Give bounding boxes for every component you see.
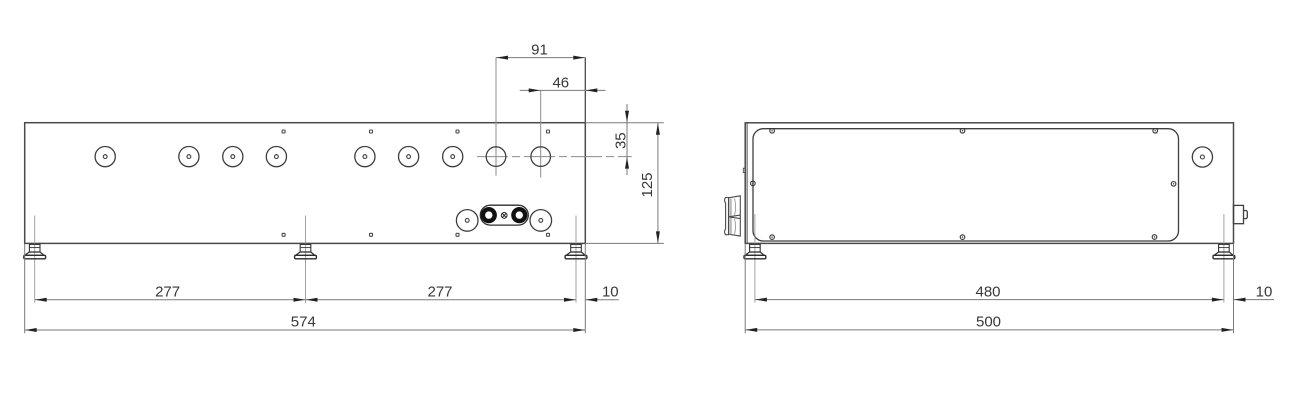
- connector circle 6: [399, 147, 419, 167]
- extension line right edge upward: [584, 58, 586, 123]
- front view foot centerline left: [34, 216, 36, 303]
- side view foot centerline right: [1223, 214, 1225, 303]
- dimension 500 line: [745, 329, 1233, 331]
- output aperture circle A: [486, 147, 506, 167]
- cover plate rounded rectangle: [753, 129, 1179, 241]
- plate screw bottom-right: [1152, 235, 1157, 240]
- keyswitch symbol: [501, 213, 507, 219]
- svg-text:500: 500: [976, 314, 1001, 331]
- svg-text:91: 91: [531, 41, 548, 58]
- side connector right protrusion: [1234, 205, 1248, 223]
- svg-text:125: 125: [639, 172, 656, 197]
- dimension 480 line: [755, 299, 1224, 301]
- svg-text:574: 574: [291, 314, 316, 331]
- dimension 91 line: [496, 57, 585, 59]
- indicator ring right: [513, 209, 525, 221]
- plate screw top-right: [1153, 129, 1158, 134]
- dimension 574 line: [25, 329, 586, 331]
- svg-text:277: 277: [155, 284, 180, 301]
- indicator ring left: [483, 209, 495, 221]
- extension line left edge downward: [24, 243, 26, 333]
- plate screw bottom-left: [770, 235, 775, 240]
- dimension 277 right line: [306, 299, 577, 301]
- front view foot right: [565, 244, 587, 258]
- side view foot right: [1213, 244, 1235, 258]
- plate screw mid-left: [751, 181, 756, 186]
- dimension 10 line front view: [585, 299, 619, 301]
- connector circle 2: [179, 147, 199, 167]
- extension line side view left edge downward: [744, 243, 746, 333]
- extension line right edge downward: [584, 243, 586, 333]
- dimension 125 line: [657, 123, 659, 244]
- front view foot middle: [295, 244, 317, 258]
- output aperture circle B: [531, 147, 551, 167]
- svg-text:480: 480: [975, 284, 1000, 301]
- svg-text:277: 277: [427, 284, 452, 301]
- connector circle 5: [355, 147, 375, 167]
- front view foot centerline middle: [305, 216, 307, 303]
- connector circle 4: [266, 147, 286, 167]
- extension line top edge rightward: [585, 122, 664, 124]
- screw marks bottom row: [282, 233, 549, 236]
- extension line side view right edge downward: [1233, 243, 1235, 333]
- plate screw top-middle: [960, 129, 965, 134]
- dimension 35 line: [626, 104, 628, 175]
- dimension 46 line: [520, 89, 606, 91]
- front view enclosure body: [25, 123, 586, 244]
- connector circle 7: [443, 147, 463, 167]
- left side connector stack: [725, 196, 741, 236]
- svg-text:35: 35: [612, 132, 629, 149]
- dimension 10 line side view: [1234, 299, 1275, 301]
- side view enclosure body: [745, 123, 1233, 244]
- dimension 277 left line: [35, 299, 306, 301]
- aperture circle B vertical centerline: [540, 90, 542, 177]
- front view foot left: [24, 244, 46, 258]
- plate screw mid-right: [1171, 182, 1176, 187]
- connector circle 3: [223, 147, 243, 167]
- front view foot centerline right: [575, 216, 577, 303]
- svg-text:10: 10: [1256, 284, 1273, 301]
- plate screw bottom-middle: [960, 235, 965, 240]
- connector circle 1: [95, 147, 115, 167]
- side view connector circle: [1192, 147, 1212, 167]
- side view left edge notch: [743, 168, 745, 172]
- side view left edge inner line: [746, 123, 748, 244]
- screw marks top row: [282, 130, 549, 133]
- extension line bottom edge rightward: [585, 242, 664, 244]
- svg-text:46: 46: [552, 74, 569, 91]
- side view foot left: [744, 244, 766, 258]
- svg-text:10: 10: [602, 284, 619, 301]
- centerline horizontal through output apertures: [477, 156, 632, 158]
- indicator stadium outline: [480, 205, 528, 225]
- plate screw top-left: [770, 129, 775, 134]
- cluster side circle right: [530, 210, 552, 232]
- cluster side circle left: [456, 210, 478, 232]
- aperture circle A vertical centerline: [495, 58, 497, 176]
- side view foot centerline left: [754, 214, 756, 303]
